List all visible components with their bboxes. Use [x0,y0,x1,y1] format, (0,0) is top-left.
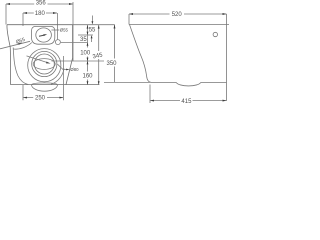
side hole circle [213,32,217,36]
svg-text:415: 415 [181,99,192,105]
plan view body outline [7,25,73,85]
dim 250 arrows [23,97,63,99]
side view bottom edge [151,81,227,83]
flush valve lever arrow [39,35,44,36]
bowl rim circle [32,51,57,76]
bowl diagonal arrowhead [46,62,51,64]
bowl outer left branch [13,48,28,85]
svg-text:250: 250 [35,96,46,102]
dim 356 line [6,3,73,5]
chain arrows [87,25,89,85]
leader bottom-left with slanted label [0,41,30,49]
dim 55 outside arrow stub above top edge [91,16,93,22]
svg-text:Ø80: Ø80 [70,67,79,72]
ext line left 180 [22,13,24,26]
dim 180 arrows [23,12,57,14]
svg-text:356: 356 [36,0,47,6]
svg-text:180: 180 [35,11,46,17]
svg-text:35: 35 [80,37,87,43]
dim 350 line [114,25,116,83]
side view front profile [130,25,152,83]
svg-text:Ø55: Ø55 [15,37,26,46]
leader to outlet label [58,64,67,69]
dim 520 arrows [129,13,227,15]
dim 520 line [129,13,227,15]
svg-text:100: 100 [80,51,91,57]
svg-text:520: 520 [172,12,183,18]
right dim chain line x87.5 [87,25,89,85]
svg-text:55: 55 [89,28,96,34]
leader arrowhead bottom-left [18,43,22,45]
x98.7 arrows [98,25,100,85]
ext line 350 bottom [104,81,150,83]
plan view top edge extension to dim chain [73,24,115,26]
flush valve circle [36,28,52,42]
ext line left 356 [5,4,7,25]
svg-text:345: 345 [92,52,104,60]
seat hinge hole [55,40,60,45]
dim 415 line [150,100,227,102]
bowl waterline ellipse [33,59,55,70]
plan view bottom edge [11,84,100,86]
dim 415 arrows [150,100,227,102]
bowl outer arc right [51,69,64,85]
dim 350 arrows [114,25,116,86]
dim 356 arrows [6,3,73,5]
outlet bump arc [176,82,201,86]
side view top edge [129,24,229,26]
ext line right 180 [57,13,59,39]
tick y35 [78,34,93,36]
bowl diagonal line [27,56,48,63]
dim 180 line [23,12,57,14]
keyhole surround flare left [14,43,32,50]
ext line right 356 [72,2,74,61]
svg-text:350: 350 [107,61,118,67]
leader to Ø55 label [51,29,59,31]
side view back edge (wall) [226,14,228,101]
dim 35 outside arrow stub below y35 [91,38,93,42]
flush valve keyhole outline [32,26,55,44]
ext line left 250 [22,85,24,100]
dim 250 line [23,97,63,99]
leader 345 horizontal [52,60,105,62]
outlet leader arrowhead [66,69,70,71]
ext line 520 left [128,14,130,25]
ext line 415 left [149,85,151,104]
datum line y42.5 to dim chain [61,42,88,44]
vertical dim line x98.7 [98,25,100,85]
trap arc below bottom [32,83,58,91]
svg-text:Ø55: Ø55 [60,28,69,33]
bowl outer circle [28,49,61,82]
ext line right 250 [62,56,64,100]
bowl inner circle [34,54,54,74]
svg-text:160: 160 [83,74,94,80]
